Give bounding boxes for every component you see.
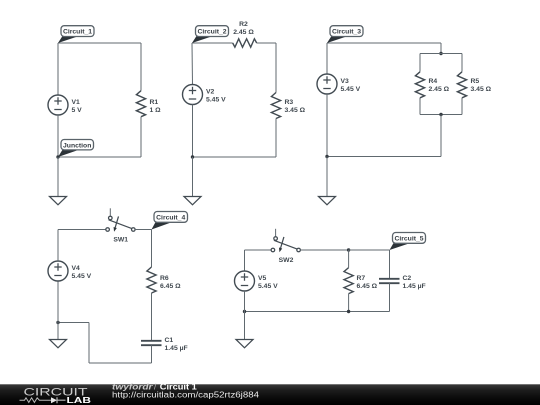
svg-text:SW1: SW1 [113,237,128,244]
svg-text:R3: R3 [285,99,294,106]
value label V3 / 5.45 V [341,78,361,93]
svg-text:V4: V4 [72,265,81,272]
ground (circuit2) [184,197,201,205]
junction dot circuit3 bottom-left [325,155,328,158]
svg-text:3.45 Ω: 3.45 Ω [471,86,492,93]
wire: C2 upper [389,250,391,278]
wire: circuit1 right upper [140,43,142,91]
wire: circuit1 left lower [57,115,59,157]
node label Circuit_3 [327,26,363,43]
wire: R4 branch lower [419,98,421,115]
value label V4 / 5.45 V [72,265,92,280]
wire: R7 upper [348,250,350,268]
svg-text:1 Ω: 1 Ω [150,107,162,114]
wire: circuit5 bottom horizontal [245,311,390,313]
svg-text:R6: R6 [160,275,169,282]
resistor R2 [233,39,257,47]
node label Circuit_2 [192,26,229,43]
wire: parallel bottom bar [420,114,462,116]
svg-text:R1: R1 [150,99,159,106]
svg-text:1.45 µF: 1.45 µF [165,345,188,352]
ground (circuit4) [50,340,67,348]
svg-text:5.45 V: 5.45 V [72,273,92,280]
wire: R4 branch upper [419,54,421,72]
voltage source V1 [48,95,68,115]
junction dot circuit2 bottom-left [191,155,194,158]
svg-text:V2: V2 [206,88,215,95]
wire: circuit2 right upper [275,43,277,93]
wire: circuit4 bottom horizontal [89,362,152,364]
value label R6 / 6.45 ohm [160,275,181,290]
wire: circuit2 left lower [192,105,194,158]
node label Circuit_4 [152,212,188,230]
wire: R5 branch upper [461,54,463,72]
wire: circuit3 bottom horizontal [327,156,441,158]
footer bar [0,384,540,405]
wire: circuit4 ground stem [57,323,59,340]
svg-text:5.45 V: 5.45 V [341,86,361,93]
svg-text:R5: R5 [471,78,480,85]
wire: circuit3 left lower [326,94,328,157]
svg-text:5.45 V: 5.45 V [206,96,226,103]
wire: circuit1 ground stem [57,157,59,197]
resistor R1 [136,91,145,117]
wire: R5 branch lower [461,98,463,115]
svg-text:Circuit_1: Circuit_1 [63,29,92,36]
wire: circuit2 ground stem [192,157,194,197]
wire: circuit1 right lower [140,117,142,157]
resistor R5 [457,72,466,98]
node label Junction [58,140,94,158]
value label R7 / 6.45 ohm [357,275,378,290]
junction dot circuit5 bottom at R7 [347,310,350,313]
voltage source V5 [235,271,255,291]
svg-text:Circuit_2: Circuit_2 [197,29,226,36]
junction dot circuit1 bottom-left [56,155,59,158]
wire: circuit1 left upper [57,43,59,95]
wire: circuit3 connector to parallel top bar [440,43,442,54]
svg-text:V1: V1 [72,99,81,106]
switch SW2 [271,229,300,253]
svg-text:R2: R2 [239,21,248,28]
value label R3 / 3.45 ohm [285,99,306,114]
ground (circuit3) [319,197,336,205]
wire: circuit4 left upper [57,230,59,262]
resistor R7 [344,268,353,294]
junction dot circuit5 top at R7 [347,248,350,251]
capacitor C2 [379,279,400,283]
value label C2 / 1.45 uF [403,275,426,290]
svg-text:6.45 Ω: 6.45 Ω [357,283,378,290]
ground (circuit5) [236,340,253,348]
junction dot circuit5 bottom-left [243,310,246,313]
wire: circuit4 top-left to switch [58,229,106,231]
value label R4 / 2.45 ohm [429,78,450,93]
wire: circuit3 left upper [326,43,328,74]
wire: circuit4 right upper [151,230,153,268]
node label Circuit_1 [58,26,94,43]
wire: circuit4 return vertical [88,323,90,364]
wire: circuit3 top horizontal [327,42,441,44]
wire: circuit3 connector from parallel bottom [440,115,442,157]
voltage source V4 [48,261,68,281]
wire: circuit3 ground stem [326,157,328,197]
svg-text:5 V: 5 V [72,107,83,114]
wire: circuit4 right lower [151,345,153,363]
resistor R6 [147,267,156,293]
value label C1 / 1.45 uF [165,337,188,352]
wire: circuit4 left lower [57,281,59,323]
wire: circuit2 left upper [191,43,194,85]
junction dot circuit4 bottom-left [56,321,59,324]
svg-text:3.45 Ω: 3.45 Ω [285,107,306,114]
wire: circuit1 bottom horizontal [58,156,141,158]
svg-text:V5: V5 [258,275,267,282]
switch SW1 [106,208,135,232]
svg-text:Circuit_5: Circuit_5 [394,235,423,242]
wire: R7 lower [348,294,350,312]
svg-text:R7: R7 [357,275,366,282]
svg-text:Junction: Junction [63,142,91,149]
wire: circuit1 top horizontal [58,42,141,44]
node label Circuit_5 [390,233,426,251]
wire: switch SW1 to circuit4 corner [135,229,151,231]
junction dot parallel bottom [439,113,442,116]
wire: circuit5 left lower [244,291,246,312]
wire: circuit5 top-left to switch [245,249,272,251]
resistor R4 [415,72,424,98]
svg-text:LAB: LAB [67,395,92,405]
value label R1 / 1 ohm [150,99,162,114]
voltage source V3 [317,74,337,94]
svg-text:C2: C2 [403,275,412,282]
wire: switch SW2 to R7 node [300,249,348,251]
svg-text:Circuit_4: Circuit_4 [156,214,185,221]
svg-text:1.45 µF: 1.45 µF [403,283,426,290]
value label R2 / 2.45 ohm [233,21,254,36]
svg-text:Circuit_3: Circuit_3 [332,29,361,36]
wire: C2 lower [389,283,391,311]
svg-text:6.45 Ω: 6.45 Ω [160,283,181,290]
wire: circuit4 return horizontal [58,322,89,324]
svg-text:SW2: SW2 [279,257,294,264]
wire: circuit2 bottom horizontal [193,156,277,158]
wire: circuit2 top-right segment [257,42,276,44]
wire: parallel top bar [420,53,462,55]
CircuitLab logo resistor-diode glyph [20,398,52,403]
value label V2 / 5.45 V [206,88,226,103]
voltage source V2 [183,85,203,105]
value label V1 / 5 V [72,99,83,114]
svg-text:R4: R4 [429,78,438,85]
resistor R3 [271,93,280,119]
wire: circuit5 left upper [244,250,246,271]
ground (circuit1) [50,197,67,205]
wire: circuit5 ground stem [244,312,246,340]
value label V5 / 5.45 V [258,275,278,290]
svg-text:V3: V3 [341,78,350,85]
svg-text:2.45 Ω: 2.45 Ω [429,86,450,93]
wire: circuit2 right lower [275,119,277,158]
svg-text:C1: C1 [165,337,174,344]
wire: circuit4 right middle [151,293,153,340]
junction dot parallel top [439,52,442,55]
svg-text:5.45 V: 5.45 V [258,283,278,290]
capacitor C1 [141,341,162,345]
wire: circuit5 top right segment [349,249,390,251]
value label R5 / 3.45 ohm [471,78,492,93]
svg-text:http://circuitlab.com/cap52rtz: http://circuitlab.com/cap52rtz6j884 [112,390,260,399]
wire: circuit2 top-left segment [192,42,233,44]
svg-text:2.45 Ω: 2.45 Ω [233,29,254,36]
